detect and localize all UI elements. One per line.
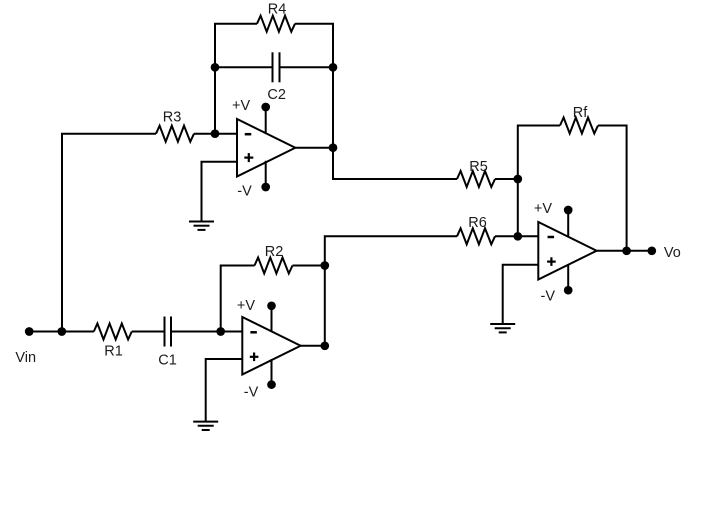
svg-text:+V: +V	[237, 298, 255, 314]
svg-text:R6: R6	[468, 215, 487, 231]
svg-text:Rf: Rf	[573, 105, 588, 121]
svg-text:C1: C1	[158, 352, 177, 368]
svg-text:R1: R1	[104, 343, 123, 359]
svg-text:R5: R5	[469, 159, 488, 175]
svg-text:+V: +V	[534, 201, 552, 217]
svg-text:R2: R2	[265, 244, 284, 260]
svg-text:R4: R4	[268, 2, 287, 18]
svg-text:-V: -V	[541, 288, 556, 304]
svg-text:Vin: Vin	[15, 350, 36, 366]
svg-text:-V: -V	[237, 183, 252, 199]
svg-text:Vo: Vo	[664, 245, 681, 261]
svg-text:-V: -V	[244, 385, 259, 401]
svg-text:C2: C2	[267, 87, 286, 103]
svg-text:R3: R3	[163, 110, 182, 126]
svg-text:+V: +V	[232, 98, 250, 114]
